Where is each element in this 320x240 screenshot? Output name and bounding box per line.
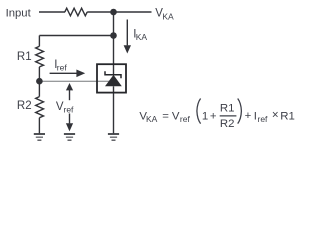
svg-text:KA: KA [146,114,158,124]
svg-text:ref: ref [180,114,191,124]
svg-text:ref: ref [64,105,75,115]
svg-text:R2: R2 [17,100,32,112]
svg-text:ref: ref [57,63,68,73]
svg-text:=: = [162,111,169,123]
svg-text:×: × [272,109,279,121]
svg-text:ref: ref [258,114,269,124]
svg-text:+: + [245,110,252,122]
svg-text:KA: KA [136,32,148,42]
svg-text:R2: R2 [220,118,235,130]
svg-text:R1: R1 [280,111,295,123]
svg-text:+: + [210,111,217,123]
svg-text:R1: R1 [17,51,32,63]
svg-text:KA: KA [162,11,174,21]
svg-text:Input: Input [6,7,32,19]
svg-text:V: V [172,111,180,123]
svg-text:I: I [254,111,257,123]
svg-text:1: 1 [202,111,208,123]
svg-text:R1: R1 [220,103,235,115]
